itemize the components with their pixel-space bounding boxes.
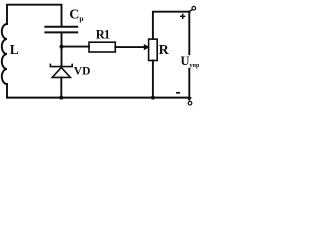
wire: bottom rail — [7, 97, 189, 99]
terminal + circle — [192, 6, 196, 10]
junction: VD bottom on rail — [59, 96, 63, 100]
plus label — [180, 14, 185, 19]
svg-text:R: R — [159, 43, 170, 58]
output arrow down — [187, 97, 192, 101]
wire: top left horizontal rail — [7, 5, 62, 26]
resistor R1 — [89, 42, 115, 52]
wire: R bottom to rail — [152, 61, 154, 98]
terminal - circle — [188, 101, 192, 105]
diode VD — [50, 64, 72, 77]
wire: Cp bottom lead to node — [61, 33, 63, 65]
svg-text:L: L — [10, 42, 19, 57]
wire: stub to plus terminal circle — [190, 10, 193, 12]
wire: right vertical output lead — [188, 12, 190, 99]
wiper arrow into R — [144, 44, 150, 50]
minus label — [176, 92, 180, 94]
svg-text:VD: VD — [74, 66, 91, 78]
inductor L — [2, 24, 7, 84]
capacitor Cp — [45, 27, 77, 33]
wire: R top to plus terminal — [153, 12, 189, 39]
potentiometer R — [149, 39, 158, 60]
junction: R bottom on rail — [151, 96, 155, 100]
wire: left bottom lead — [6, 84, 8, 98]
wire: node to R1 — [62, 46, 90, 48]
wire: VD anode to bottom rail — [60, 77, 62, 97]
svg-text:Cр: Cр — [69, 8, 83, 24]
voltage label U upr background — [180, 55, 198, 68]
wire: R1 to wiper arrow — [115, 46, 144, 48]
junction: Cp/VD/R1 node — [60, 45, 64, 49]
svg-text:R1: R1 — [96, 28, 110, 42]
